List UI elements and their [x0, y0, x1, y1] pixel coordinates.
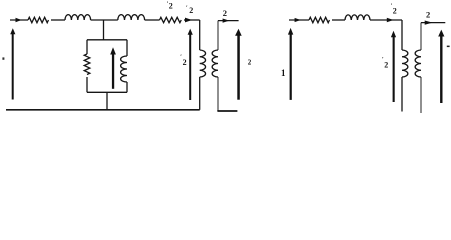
svg-text:2: 2: [393, 7, 397, 16]
svg-text:2: 2: [183, 58, 187, 67]
svg-text:2: 2: [426, 10, 430, 20]
svg-text:2: 2: [223, 8, 227, 18]
svg-text:2: 2: [189, 6, 193, 15]
svg-text:1: 1: [281, 68, 286, 78]
svg-text:2: 2: [169, 1, 173, 10]
svg-text:2: 2: [248, 59, 252, 67]
svg-text:2: 2: [384, 60, 388, 69]
